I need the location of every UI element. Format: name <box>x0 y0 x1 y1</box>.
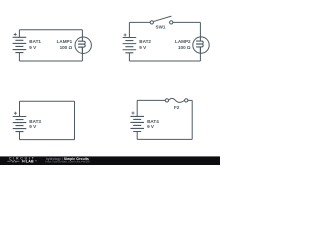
svg-text:9 V: 9 V <box>29 124 37 129</box>
svg-text:9 V: 9 V <box>29 45 37 50</box>
footer bar <box>0 156 220 165</box>
svg-text:BAT3: BAT3 <box>29 119 41 124</box>
fuse F2 <box>165 98 188 102</box>
battery BAT1 <box>13 37 27 52</box>
wire loop circuit 1 top-left <box>19 30 82 61</box>
svg-text:F2: F2 <box>174 105 180 110</box>
svg-text:9 V: 9 V <box>147 124 155 129</box>
wire loop circuit 3 bottom-left <box>20 101 75 139</box>
CircuitLab logo battery glyph <box>22 160 25 162</box>
battery BAT3 <box>13 117 27 132</box>
svg-text:LAMP2: LAMP2 <box>175 39 191 44</box>
lamp LAMP1 <box>75 37 91 53</box>
svg-text:9 V: 9 V <box>139 45 147 50</box>
plus sign BAT4 <box>132 112 135 115</box>
wire loop circuit 4 bottom-right <box>137 100 192 139</box>
lamp LAMP2 <box>193 37 209 53</box>
plus sign BAT3 <box>14 112 17 115</box>
svg-text:LAB: LAB <box>26 160 34 164</box>
plus sign BAT2 <box>124 34 127 37</box>
svg-text:SW1: SW1 <box>156 24 166 29</box>
svg-text:LAMP1: LAMP1 <box>57 39 73 44</box>
wire loop circuit 2 top-right <box>129 22 200 61</box>
svg-text:100 Ω: 100 Ω <box>60 45 73 50</box>
svg-text:BAT4: BAT4 <box>147 119 159 124</box>
switch SW1 <box>150 16 173 24</box>
svg-text:BAT2: BAT2 <box>139 39 151 44</box>
svg-text:BAT1: BAT1 <box>29 39 41 44</box>
svg-text:http://circuitlab.com/c6zz4x58: http://circuitlab.com/c6zz4x58/ <box>46 160 91 164</box>
battery BAT4 <box>130 116 144 131</box>
battery BAT2 <box>123 38 137 53</box>
plus sign BAT1 <box>14 33 17 36</box>
CircuitLab logo wire squiggle <box>7 160 19 162</box>
svg-text:100 Ω: 100 Ω <box>178 45 191 50</box>
